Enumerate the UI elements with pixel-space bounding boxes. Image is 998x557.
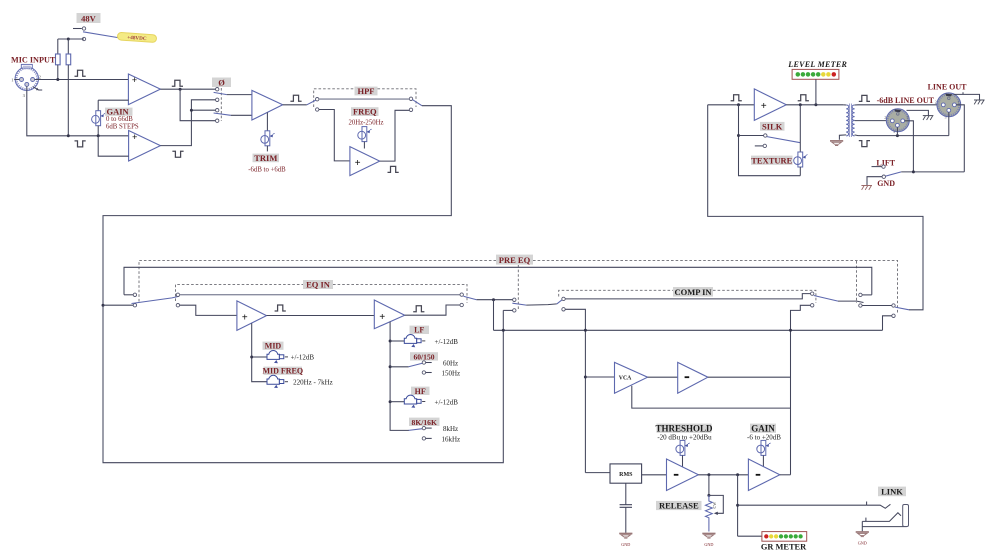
ground rms cap [619,534,632,548]
label COMP IN [673,287,713,297]
PRE EQ linkage dashed mid [517,265,519,309]
wire secondary tap [855,120,891,122]
potentiometer FREQ [358,127,372,149]
label HPF [355,86,378,96]
phase linkage dashed [220,88,222,121]
wire vca feedback [632,386,790,408]
svg-text:150Hz: 150Hz [442,370,461,378]
wire rms out [642,474,667,476]
meter LEVEL METER [792,69,839,79]
wire J2 pin3 [896,127,898,135]
label 48V [77,13,101,23]
label SILK [760,121,785,131]
op-amp U1A [128,74,160,105]
wire hpf out [380,110,410,161]
svg-text:8K/16K: 8K/16K [412,418,437,427]
potentiometer RELEASE rheostat [706,495,724,531]
potentiometer HF [404,395,458,408]
node texture top [799,103,802,106]
label RELEASE [656,501,702,511]
label MID [263,342,284,351]
label MID FREQ [262,367,303,376]
label GAIN comp [747,423,781,441]
HPF switch terminals left [316,98,319,112]
svg-text:GND: GND [704,542,713,547]
wire to LF pot [390,340,404,342]
phase switch arm upper [214,92,227,94]
switch S-out terminals [892,304,895,318]
svg-text:SILK: SILK [762,121,783,131]
switch S-8k-16k [409,425,461,443]
wire HPF in path [319,110,350,161]
wire comp1 out [698,474,748,476]
op-amp U9 comp2 [748,459,779,491]
pulse symbol line out [798,95,809,101]
meter GR METER [761,532,807,552]
pulse symbol line in [731,95,742,101]
wire eqout node [477,299,513,301]
svg-text:+: + [132,76,137,86]
wire to 60-150 switch [390,366,409,368]
HPF switch arm out [412,100,422,106]
svg-text:2: 2 [884,116,886,120]
wire to silk switch [739,135,764,137]
pulse symbol eq2 out [413,306,424,312]
wire eq2 out [405,305,460,315]
switch S-silk [755,134,801,148]
svg-text:COMP IN: COMP IN [674,287,712,297]
wire pole preeq left [103,304,133,306]
ground J2 chassis [923,116,934,120]
connector J1 mic input XLR [11,64,41,97]
svg-text:20Hz-250Hz: 20Hz-250Hz [348,119,383,126]
svg-text:Ø: Ø [218,77,225,87]
svg-text:GR METER: GR METER [761,542,807,551]
switch S-lift [872,165,902,178]
wire gr meter [738,535,762,537]
node meter tap [814,103,817,106]
wire vca to inv [648,376,678,378]
COMP IN dashed frame [559,290,816,303]
stub preeq-mid bottom [503,309,512,311]
wire compin to vca path [565,309,585,472]
node dry vca [584,329,587,332]
node 48V junction [67,38,70,41]
label HF [411,387,430,396]
op-amp U10 line [754,89,786,121]
svg-text:+/-12dB: +/-12dB [291,353,315,361]
svg-text:2: 2 [935,100,937,104]
node link [736,504,739,507]
svg-text:THRESHOLD: THRESHOLD [655,423,713,433]
switch S-preeq-mid terminals [513,298,516,312]
HPF switch terminals right [409,97,412,111]
HPF bypass wire [319,98,409,100]
node R2 cold junction [67,134,70,137]
svg-text:+: + [379,312,385,323]
potentiometer THRESHOLD [676,440,690,467]
svg-text:+/-12dB: +/-12dB [435,398,459,406]
svg-text:LF: LF [414,326,424,335]
XLR shell stub [33,87,42,91]
wire gain to U1B inv [98,136,128,156]
EQ bypass wire [180,294,460,296]
svg-text:+: + [132,133,137,143]
switch S-preeq-left terminals [124,293,137,307]
op-amp U5 eq hf [374,300,404,329]
svg-text:FREQ: FREQ [353,107,377,117]
stub preeq-right top [862,294,872,296]
wire to mid pot [252,356,267,358]
wire link [738,504,867,506]
wire hot pin2 [35,79,129,81]
node silk top [737,134,740,137]
op-amp U2 trim [252,90,283,120]
svg-text:6dB STEPS: 6dB STEPS [106,124,139,131]
op-amp U3 hpf [350,147,380,176]
svg-text:48V: 48V [81,13,97,23]
ground link [856,532,869,546]
node xlr3 join [896,134,899,137]
label LF [410,326,430,335]
ground lift [861,186,872,190]
svg-text:+: + [355,158,361,169]
label 8K/16K [409,418,440,427]
svg-text:MID: MID [265,342,282,351]
jack LINK [862,502,908,532]
potentiometer TRIM [261,112,275,151]
potentiometer MID FREQ [267,375,333,388]
svg-text:TRIM: TRIM [254,153,277,163]
svg-text:MIC INPUT: MIC INPUT [11,56,56,65]
svg-text:RELEASE: RELEASE [659,501,699,511]
connector J2 -6dB out XLR [884,109,909,134]
svg-text:TEXTURE: TEXTURE [751,155,792,165]
node R1 junction [56,78,59,81]
svg-text:0 to 66dB: 0 to 66dB [106,116,133,123]
wire arm1 to U2 [227,94,252,96]
pulse symbol xfmr top [859,95,870,101]
wire eq1 to eq2 [267,315,375,317]
node 60-150 [389,365,392,368]
pulse symbol xfmr bottom [859,141,870,147]
svg-text:1: 1 [958,100,960,104]
switch arm out [895,307,909,310]
svg-text:GND: GND [858,541,867,546]
pulse symbol trim out [290,95,301,101]
wire comp out [708,376,791,378]
connector J3 line out XLR [935,93,961,120]
svg-text:MID FREQ: MID FREQ [262,367,303,376]
capacitor C1 [620,483,632,533]
wire J3 pin1 [956,105,964,172]
wire trim out [283,104,307,106]
wire U1A out [160,88,215,90]
op-amp U7 inv [678,362,708,393]
node dry comp [789,329,792,332]
wire J2 shell gnd [907,110,929,115]
switch S-preeq-right terminals [859,293,862,307]
svg-text:HPF: HPF [358,86,375,96]
PRE EQ dashed frame [139,260,898,313]
op-amp U1B [129,131,161,162]
wire posteq down [493,300,495,331]
wire J2 pin1 [905,121,914,172]
switch S-60-150 [409,359,461,377]
pulse symbol hot in [75,70,86,76]
wire to comp-in pole [526,304,557,305]
label EQ IN [303,280,333,290]
resistor R2 [66,39,71,136]
wire hpf to eq loop [103,106,503,463]
label FREQ [348,107,383,127]
svg-text:3: 3 [945,116,947,120]
ground transformer [830,141,843,146]
comp bypass wire [565,294,810,299]
HPF dashed frame [314,89,416,107]
svg-text:RMS: RMS [619,472,633,478]
node gain branch [736,473,739,476]
wire arm2 to U2 [231,114,252,116]
svg-text:LINK: LINK [881,487,903,497]
label 60/150 [410,352,438,361]
switch S-compin-left terminals [562,297,565,311]
pulse symbol hpf out [388,166,399,172]
wire to HF pot [390,401,404,403]
label PRE EQ [496,255,533,265]
svg-text:CW: CW [712,502,717,509]
switch arm preeq-mid [512,303,526,305]
pulse symbol U1B out [172,151,183,157]
phase switch arm lower [214,113,231,115]
svg-text:+/-12dB: +/-12dB [435,338,459,346]
switch arm eqin-right [463,296,476,299]
wire line amp in [708,104,755,106]
node mid pot [250,356,253,359]
svg-text:LIFT: LIFT [876,158,895,167]
switch S-48V [73,27,118,41]
svg-text:60/150: 60/150 [413,352,434,361]
switch arm compin-right [814,296,838,302]
label phase [212,77,231,87]
wire link branch [737,475,739,536]
node gain bottom [97,134,100,137]
svg-text:LINE OUT: LINE OUT [928,83,968,92]
wire main dry line [494,329,883,331]
wire compin-right bottom [791,305,811,475]
wire preeq-right to out switch [862,305,892,307]
label THRESHOLD [655,423,713,441]
wire lift bus [901,171,964,173]
transformer T1 [839,104,854,140]
svg-text:EQ IN: EQ IN [306,280,331,290]
label LINK [878,487,906,497]
wire comp2 out [780,474,791,476]
svg-text:GND: GND [877,179,895,188]
node vca in [584,376,587,379]
wire release branch [708,475,710,496]
block RMS [610,464,642,483]
svg-text:+: + [761,101,767,112]
potentiometer GAIN comp [757,440,771,466]
resistor R1 [56,39,61,80]
ground J3 chassis [974,100,985,104]
node release [707,473,710,476]
wire out-switch bottom [883,316,892,331]
wire vca in [585,376,614,378]
wire U1A to T4 [180,89,216,121]
wire rms feed [585,472,610,474]
potentiometer LF [404,334,458,347]
phase switch terminals [216,88,219,123]
EQ IN dashed frame [176,284,468,303]
svg-text:220Hz - 7kHz: 220Hz - 7kHz [293,378,333,386]
node dry pre [502,329,505,332]
wire secondary top [855,104,942,106]
node U1B branch [190,109,193,112]
wire line amp out [786,104,843,106]
svg-text:VCA: VCA [619,376,632,382]
svg-text:1: 1 [906,116,908,120]
fuse +48VDC [117,32,156,43]
svg-text:GND: GND [621,542,630,547]
wire preeq bypass [124,267,872,295]
wire lift to gnd [867,177,882,186]
wire cold pin3 [27,86,129,135]
potentiometer GAIN [92,100,129,136]
wire U1B to T3 [191,109,215,111]
ground release [702,534,715,548]
wire 48V bus [58,38,84,40]
potentiometer MID [267,350,314,363]
wire J3 shell gnd [954,92,980,100]
wire comp arm to preeq-right [838,301,864,302]
switch S-eqin-right terminals [460,293,463,307]
wire mid branch [252,323,267,381]
wire silk left rail [739,105,801,176]
svg-text:+: + [242,312,248,323]
pulse symbol U1A out [172,80,183,86]
switch arm preeq-eqin [132,296,180,303]
svg-text:60Hz: 60Hz [443,359,458,367]
label TEXTURE [751,155,793,165]
switch arm compin-left [557,300,562,304]
svg-text:PRE EQ: PRE EQ [499,255,531,265]
svg-text:-6dB LINE OUT: -6dB LINE OUT [877,96,935,105]
svg-text:GAIN: GAIN [751,423,775,433]
node U1A out [179,88,182,91]
op-amp U8 comp1 [667,459,699,491]
wire eqin to amp [180,305,237,315]
node post-eq [492,298,495,301]
wire J3 pin3 [948,112,950,135]
wire meter tap [815,79,817,105]
node release top [707,494,710,497]
svg-text:-6dB to +6dB: -6dB to +6dB [248,166,286,173]
label TRIM [248,153,286,173]
node hf [389,400,392,403]
switch S-eqin-left terminals [176,293,179,307]
node lf [389,340,392,343]
node main input [102,304,105,307]
wire secondary bottom [855,134,949,137]
switch S-compin-right terminals [811,292,814,307]
wire lf-hf branch [390,322,409,431]
op-amp U6 VCA [615,362,648,393]
svg-text:3: 3 [893,130,895,134]
label GAIN [105,107,139,131]
wire U1B out [160,100,215,146]
pulse symbol eq1 out [275,305,286,311]
node lift [912,170,915,173]
potentiometer TEXTURE [794,105,808,176]
node silk branch [737,103,740,106]
svg-text:8kHz: 8kHz [443,425,458,433]
PRE EQ linkage dashed right [856,261,858,303]
svg-text:LEVEL METER: LEVEL METER [787,60,847,69]
pulse symbol cold in [75,141,86,147]
op-amp U4 eq mid [237,301,267,331]
svg-text:16kHz: 16kHz [442,435,461,443]
wire out to line amp [708,105,923,310]
svg-text:HF: HF [415,387,426,396]
HPF switch arm in [307,100,316,105]
